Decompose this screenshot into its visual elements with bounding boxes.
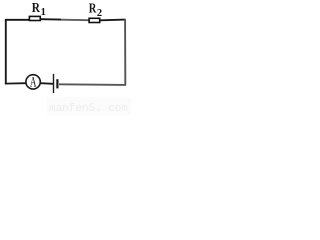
wire: top, left corner to R1: [5, 19, 30, 21]
resistor R2: [89, 18, 100, 22]
svg-text:A: A: [30, 75, 37, 91]
wire: R2 to top-right corner: [101, 19, 126, 22]
wire: right vertical: [124, 19, 126, 85]
wire: ammeter to bottom-left corner: [5, 82, 26, 84]
wire: left vertical: [5, 20, 7, 85]
wire: battery to ammeter: [40, 82, 53, 85]
wire: bottom, right corner to battery (gray): [59, 83, 126, 86]
background: [0, 0, 131, 115]
svg-text:manfen5. com: manfen5. com: [49, 103, 128, 115]
wire: R1 to R2 (gray part): [61, 19, 89, 22]
watermark background tint: [47, 97, 131, 115]
battery cell: long plate: [53, 74, 55, 93]
ammeter A1 circle: [26, 75, 40, 89]
battery cell: short thick plate: [56, 79, 58, 88]
svg-text:2: 2: [97, 8, 102, 19]
wire: R1 to R2 (black part): [41, 18, 61, 20]
svg-text:1: 1: [41, 7, 46, 18]
svg-text:R: R: [32, 1, 41, 16]
resistor R1: [29, 16, 40, 20]
svg-text:R: R: [89, 2, 97, 17]
